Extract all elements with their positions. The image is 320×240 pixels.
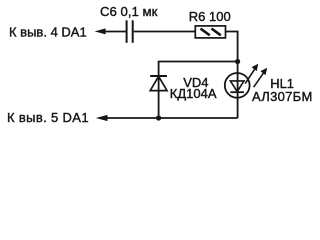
resistor R6 power-rating slash 1 <box>201 29 210 36</box>
LED HL1 triangle <box>230 81 244 92</box>
svg-text:С6 0,1 мк: С6 0,1 мк <box>100 4 158 19</box>
junction node: diode branch on bottom wire <box>156 115 161 120</box>
wire: bottom lead arrowhead to pin 5 <box>96 115 108 121</box>
wire: top lead arrowhead to pin 4 <box>95 28 106 34</box>
wire: resistor to right branch, down right side <box>226 32 238 119</box>
capacitor C6 right plate <box>132 20 134 43</box>
LED HL1 light arrow 2 head <box>260 68 267 75</box>
junction node: resistor branch / diode branch / LED <box>235 59 240 64</box>
svg-text:R6 100: R6 100 <box>189 9 231 24</box>
svg-text:КД104А: КД104А <box>170 86 217 101</box>
diode VD4 cathode bar <box>150 75 167 77</box>
svg-text:АЛ307БМ: АЛ307БМ <box>252 89 313 104</box>
svg-text:К выв. 5 DA1: К выв. 5 DA1 <box>7 110 89 125</box>
wire: bottom rail <box>105 117 237 119</box>
wire: middle horizontal to diode branch <box>159 62 238 119</box>
resistor R6 power-rating slash 2 <box>212 29 221 36</box>
LED HL1 circle <box>225 73 250 98</box>
capacitor C6 left plate <box>126 20 128 43</box>
wire: capacitor to resistor R6 <box>134 31 196 33</box>
LED HL1 light arrow 1 shaft <box>245 69 255 84</box>
diode VD4 triangle <box>150 76 167 90</box>
LED HL1 light arrow 1 head <box>252 64 259 71</box>
svg-text:К выв. 4 DA1: К выв. 4 DA1 <box>9 24 87 39</box>
LED HL1 cathode bar <box>230 91 244 93</box>
resistor R6 body <box>195 26 225 38</box>
wire: arrow to capacitor C6 <box>104 31 126 33</box>
LED HL1 light arrow 2 shaft <box>254 73 264 88</box>
